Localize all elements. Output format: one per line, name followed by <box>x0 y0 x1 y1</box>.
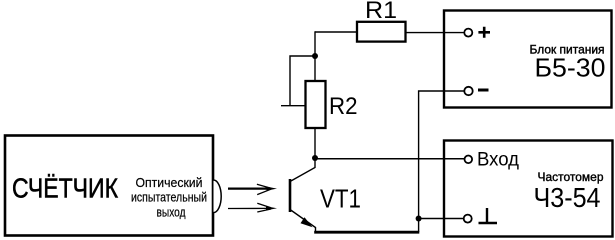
power supply box Б5-30 <box>444 11 612 108</box>
terminal + <box>464 29 472 37</box>
wire collector to Вход <box>315 158 465 160</box>
svg-text:R1: R1 <box>365 0 397 24</box>
node collector junction <box>312 155 318 161</box>
svg-text:Ч3-54: Ч3-54 <box>534 182 601 213</box>
wire minus terminal down <box>419 91 464 232</box>
wire vertical R1 to R2 <box>314 31 316 81</box>
svg-text:Оптический: Оптический <box>136 175 203 190</box>
emitter arrow <box>301 217 313 227</box>
label + <box>478 27 490 38</box>
label Оптический испытательный выход <box>131 175 207 220</box>
terminal − <box>464 87 472 95</box>
svg-text:Вход: Вход <box>477 149 520 171</box>
transistor VT1 <box>290 158 316 232</box>
light arrow 2 <box>228 203 277 212</box>
trimmer tap bar <box>281 105 306 107</box>
svg-text:выход: выход <box>157 205 186 220</box>
resistor R1 <box>357 22 406 42</box>
svg-text:испытательный: испытательный <box>131 190 207 205</box>
frequency meter box Ч3-54 <box>444 141 613 237</box>
wire R1 left lead <box>315 31 357 33</box>
resistor R2 (trimmer) <box>306 81 326 128</box>
collector lead <box>290 158 315 182</box>
counter box СЧЁТЧИК <box>5 136 213 236</box>
optical output window bulge <box>214 180 222 213</box>
wire emitter bottom <box>314 231 419 234</box>
wire R2 bottom lead <box>314 128 316 158</box>
base bar <box>289 179 292 212</box>
emitter lead <box>290 210 316 233</box>
terminal ⊥ <box>464 215 472 223</box>
wire ground junction to ⊥ terminal <box>419 218 464 220</box>
terminal Вход <box>465 156 473 164</box>
node junction above R2 <box>312 53 318 59</box>
svg-text:VT1: VT1 <box>320 186 361 214</box>
light arrow 1 <box>228 184 277 194</box>
trimmer wiper tap <box>290 56 315 106</box>
wire R1 right lead to + terminal <box>406 32 465 34</box>
svg-text:Б5-30: Б5-30 <box>535 53 606 83</box>
label − <box>478 89 489 92</box>
svg-text:СЧЁТЧИК: СЧЁТЧИК <box>12 173 119 204</box>
node ground junction <box>416 216 422 222</box>
ground symbol ⊥ <box>479 208 498 223</box>
svg-text:R2: R2 <box>329 93 358 120</box>
